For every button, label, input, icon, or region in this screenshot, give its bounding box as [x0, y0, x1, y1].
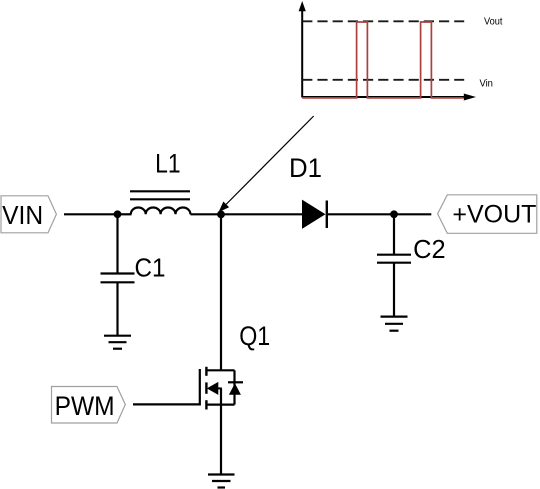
diode D1 — [303, 201, 327, 229]
waveform graph y-axis — [299, 1, 306, 98]
net tag VIN — [1, 196, 56, 233]
wire D1 to node B — [327, 213, 394, 215]
svg-text:VIN: VIN — [2, 200, 43, 230]
ground C2 — [381, 317, 408, 331]
waveform trace — [302, 22, 463, 98]
wire switch node to Q1 drain — [220, 214, 222, 370]
net tag PWM — [52, 387, 126, 424]
Vin dashed reference line — [302, 79, 464, 81]
svg-text:PWM: PWM — [55, 391, 115, 421]
capacitor C2 — [377, 214, 411, 316]
inductor L1 — [130, 191, 190, 214]
transistor Q1 — [200, 367, 235, 410]
node A junction — [114, 210, 122, 218]
wire VIN to node A — [64, 213, 118, 215]
wire node A to L1 — [118, 213, 132, 215]
wire switch node to D1 — [221, 213, 303, 215]
svg-text:C2: C2 — [413, 234, 446, 264]
node B junction — [390, 210, 398, 218]
ground Q1 — [208, 475, 235, 488]
wire Q1 source to ground — [220, 405, 222, 475]
svg-text:Vin: Vin — [479, 78, 493, 89]
capacitor C1 — [101, 214, 135, 335]
wire L1 to switch node — [190, 213, 221, 215]
svg-text:D1: D1 — [289, 153, 322, 183]
svg-text:Vout: Vout — [484, 17, 503, 28]
annotation arrow to switch node — [219, 116, 314, 212]
wire PWM to Q1 gate — [133, 403, 200, 405]
ground C1 — [104, 336, 131, 349]
Vout dashed reference line — [302, 20, 464, 22]
svg-text:C1: C1 — [135, 253, 166, 283]
svg-text:L1: L1 — [155, 148, 181, 178]
svg-text:+VOUT: +VOUT — [452, 200, 536, 228]
wire node B to +VOUT tag — [394, 213, 431, 215]
svg-text:Q1: Q1 — [239, 321, 270, 351]
waveform graph x-axis — [302, 94, 476, 101]
body diode of Q1 — [228, 382, 243, 395]
net tag +VOUT — [438, 195, 537, 234]
switch node junction — [217, 211, 225, 219]
